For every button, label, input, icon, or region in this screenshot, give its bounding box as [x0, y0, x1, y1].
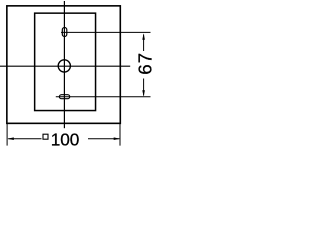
- square symbol: [43, 134, 48, 139]
- dim 67 upper arrowhead: [142, 33, 145, 39]
- top slot: [62, 28, 67, 37]
- dim 67 upper shaft: [143, 35, 145, 52]
- dim 67 lower shaft: [143, 79, 145, 96]
- vertical centerline: [63, 1, 65, 128]
- left extension line for 100: [6, 124, 8, 146]
- svg-text:100: 100: [51, 130, 80, 150]
- dim 100 left shaft: [8, 138, 41, 140]
- dim 100 right arrowhead: [114, 137, 120, 140]
- inner plate outline: [35, 13, 96, 110]
- svg-text:67: 67: [135, 52, 156, 75]
- dim 100 right shaft: [88, 138, 119, 140]
- bottom slot: [59, 95, 69, 99]
- horizontal centerline: [0, 65, 130, 67]
- dim 67 lower arrowhead: [142, 90, 145, 96]
- center circle: [58, 60, 70, 72]
- bottom extension line: [56, 96, 151, 98]
- top extension line: [61, 31, 151, 33]
- right extension line for 100: [119, 124, 121, 146]
- dim 100 left arrowhead: [7, 137, 13, 140]
- outer plate outline: [7, 6, 120, 124]
